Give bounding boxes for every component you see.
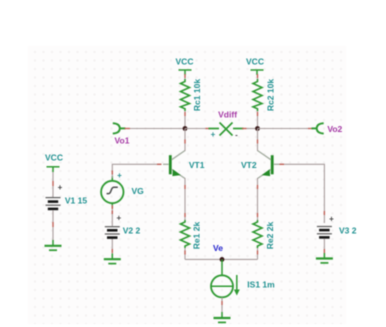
pin mark V1 +: [52, 181, 54, 186]
power symbol VCC (above Rc2): [251, 70, 264, 75]
svg-text:Ve: Ve: [213, 243, 223, 253]
wire VCC to Rc2: [257, 75, 259, 80]
svg-text:Re1 2k: Re1 2k: [191, 222, 201, 250]
resistor Re1 2k: [181, 220, 190, 248]
wire VT2 collector to node B: [257, 129, 259, 152]
wire node A to voltmeter: [185, 128, 207, 130]
wire Re2 to bottom rail: [257, 248, 259, 259]
wire VT1 collector to node A: [184, 129, 186, 152]
svg-text:Vdiff: Vdiff: [218, 110, 237, 120]
wire VT2 base to V3: [280, 164, 325, 223]
resistor Rc1 10k: [181, 79, 190, 111]
ground (IS1): [214, 312, 231, 322]
power symbol VCC (left, above V1): [47, 167, 60, 172]
wire Re1 to bottom rail: [184, 248, 186, 259]
svg-text:V1 15: V1 15: [65, 196, 87, 206]
wire VCC to V1 battery: [52, 172, 54, 197]
wire bottom rail: [185, 258, 258, 260]
svg-text:+: +: [211, 130, 216, 139]
svg-text:Rc2 10k: Rc2 10k: [265, 79, 275, 111]
svg-text:VCC: VCC: [176, 57, 194, 67]
wire node B to Vo2: [258, 128, 314, 130]
current source IS1 1m: [211, 259, 237, 297]
wire VCC to Rc1: [184, 75, 186, 80]
svg-text:VG: VG: [131, 186, 144, 196]
ground (V1): [45, 240, 62, 250]
svg-text:+: +: [117, 171, 122, 180]
svg-text:+: +: [58, 183, 63, 192]
wire VG bottom to V2: [111, 205, 113, 226]
wire VT1 emitter down: [184, 178, 186, 220]
transistor VT2: [258, 151, 280, 179]
wire IS1 to ground: [221, 297, 223, 313]
battery V2: [105, 227, 120, 238]
node A (junction under Rc1): [183, 126, 188, 131]
wire V1 to ground: [52, 211, 54, 242]
svg-text:+: +: [116, 214, 121, 223]
svg-text:V2 2: V2 2: [123, 226, 141, 236]
connector Vo2: [312, 123, 324, 133]
svg-text:Re2 2k: Re2 2k: [265, 222, 275, 250]
battery V1: [46, 198, 61, 209]
voltmeter Vdiff (X symbol): [209, 123, 244, 136]
ground (V3): [316, 253, 333, 263]
wire voltmeter to node B: [244, 128, 258, 130]
connector Vo1: [113, 123, 126, 133]
svg-text:VCC: VCC: [246, 57, 264, 67]
svg-text:+: +: [329, 214, 334, 223]
svg-text:Vo2: Vo2: [327, 124, 342, 134]
svg-text:VCC: VCC: [45, 153, 63, 163]
svg-text:Vo1: Vo1: [115, 136, 130, 146]
wire V3 to ground: [323, 239, 325, 254]
resistor Re2 2k: [253, 220, 262, 248]
svg-text:VT2: VT2: [241, 160, 257, 170]
wire VT2 emitter down: [257, 178, 259, 220]
wire Rc2 to node B: [257, 111, 259, 129]
node Ve (junction): [220, 257, 225, 262]
svg-text:VT1: VT1: [189, 160, 205, 170]
wire V2 to ground: [111, 239, 113, 255]
power symbol VCC (above Rc1): [179, 70, 192, 75]
wire VG top to VT1 base: [112, 164, 161, 178]
wire Rc1 to node A: [184, 111, 186, 129]
wire Vo1 to node A: [126, 128, 186, 130]
ground (V2): [104, 254, 121, 264]
svg-text:-: -: [235, 131, 238, 140]
source VG: [101, 176, 123, 208]
transistor VT1: [163, 151, 185, 179]
svg-text:IS1 1m: IS1 1m: [247, 280, 275, 290]
node B (junction under Rc2): [255, 126, 260, 131]
resistor Rc2 10k: [253, 79, 262, 111]
svg-text:V3 2: V3 2: [339, 225, 357, 235]
svg-text:Rc1 10k: Rc1 10k: [192, 79, 202, 111]
